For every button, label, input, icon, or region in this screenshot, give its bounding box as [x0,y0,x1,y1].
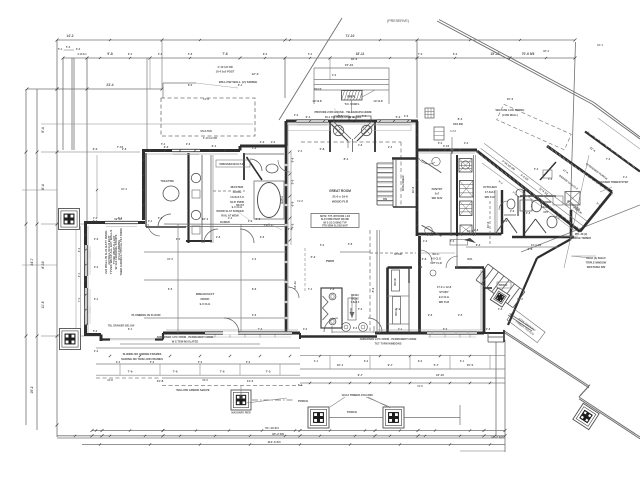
svg-text:7'-4: 7'-4 [308,287,313,291]
svg-text:5'-2: 5'-2 [311,255,316,259]
svg-text:3'-2: 3'-2 [76,47,81,51]
svg-text:3'-1: 3'-1 [460,360,465,363]
svg-text:3'-3: 3'-3 [468,265,473,269]
svg-text:10'-6: 10'-6 [411,186,415,193]
svg-text:(LOW WALL): (LOW WALL) [502,113,518,117]
svg-text:6'-0: 6'-0 [176,237,181,241]
svg-text:WD SHV: WD SHV [432,196,443,200]
svg-text:18'-6: 18'-6 [351,57,358,61]
svg-text:7'-2: 7'-2 [298,384,303,387]
svg-text:6'-1: 6'-1 [238,83,243,87]
svg-text:7'-6: 7'-6 [222,52,228,56]
svg-text:5x7: 5x7 [435,192,440,196]
svg-text:1/2 10-R: 1/2 10-R [373,100,382,103]
svg-text:14'-7 1/2: 14'-7 1/2 [491,435,503,439]
svg-text:12'-1: 12'-1 [597,43,603,47]
svg-text:7'-5: 7'-5 [266,370,271,374]
svg-text:10'-2: 10'-2 [507,97,514,101]
svg-text:W S.TEM INSULATED: W S.TEM INSULATED [172,340,199,344]
svg-text:5'-8: 5'-8 [320,147,325,151]
svg-text:6'-8: 6'-8 [288,227,293,231]
svg-text:3'-0: 3'-0 [503,219,508,223]
svg-text:8'-0: 8'-0 [371,287,375,292]
svg-text:94'-2 5/8: 94'-2 5/8 [272,432,284,436]
svg-text:3'-0: 3'-0 [303,327,308,331]
svg-text:4'-1: 4'-1 [398,327,403,331]
svg-text:4'-10 1/2 OD: 4'-10 1/2 OD [217,65,232,69]
svg-text:2'-8: 2'-8 [122,147,127,151]
svg-text:5'-2: 5'-2 [66,46,71,49]
svg-text:9-0 CLG: 9-0 CLG [200,302,211,306]
svg-text:114'-0 3/4: 114'-0 3/4 [267,440,281,444]
svg-text:ROD+SHELF: ROD+SHELF [401,175,405,191]
svg-text:3'-0: 3'-0 [93,147,98,151]
svg-text:51'-10 3/4: 51'-10 3/4 [265,426,279,430]
svg-text:6'-1: 6'-1 [306,115,311,119]
svg-text:5'-7: 5'-7 [434,363,439,367]
svg-text:SLD CORE PAINT GRADE: SLD CORE PAINT GRADE [321,218,350,221]
svg-text:2'-6: 2'-6 [458,313,463,317]
svg-text:RECESSED TIMBER STEP: RECESSED TIMBER STEP [596,180,629,184]
svg-text:5'-0: 5'-0 [358,307,363,311]
svg-text:BW41D: BW41D [499,284,508,287]
svg-text:10-4 5x5 POST: 10-4 5x5 POST [216,70,235,74]
svg-text:9'-4: 9'-4 [41,127,45,133]
svg-text:2x6 WALL W R-21 BATT INSUL: 2x6 WALL W R-21 BATT INSUL [104,230,108,274]
svg-text:BATH: BATH [280,196,284,203]
svg-text:6'-4: 6'-4 [77,272,81,277]
svg-text:DRESSER BUILT-IN: DRESSER BUILT-IN [220,162,245,166]
svg-text:6'-1: 6'-1 [212,144,217,148]
svg-text:WESTODIA SIM: WESTODIA SIM [587,266,605,269]
svg-text:3'-1: 3'-1 [148,219,153,223]
svg-text:8'-8: 8'-8 [252,287,257,291]
svg-text:6'-0: 6'-0 [450,239,455,243]
svg-text:17-6x13: 17-6x13 [485,190,496,194]
svg-text:2'-8: 2'-8 [474,228,479,232]
svg-text:DN: DN [350,308,353,312]
svg-text:3'-6: 3'-6 [252,313,257,317]
svg-text:11'-0: 11'-0 [417,385,423,388]
svg-text:11'-8: 11'-8 [467,229,474,233]
svg-text:3'-2: 3'-2 [116,361,121,364]
svg-text:5'-0: 5'-0 [256,217,261,221]
svg-text:19'-2: 19'-2 [30,386,34,393]
svg-text:10'-1: 10'-1 [337,363,344,367]
svg-text:8-0 CLG: 8-0 CLG [431,257,441,261]
svg-text:12'-8: 12'-8 [107,379,113,382]
svg-text:4'-2: 4'-2 [423,239,428,243]
svg-text:MTL.48 (2): MTL.48 (2) [575,233,588,236]
svg-text:FIREPL: FIREPL [347,96,356,99]
svg-text:WILLOW LOG SIDING: WILLOW LOG SIDING [496,108,525,112]
svg-text:9'-8: 9'-8 [107,52,113,56]
svg-text:5-0x7-6: 5-0x7-6 [264,224,273,227]
svg-text:8'-10: 8'-10 [41,261,45,268]
svg-text:2'-8: 2'-8 [486,327,491,331]
svg-text:PANTRY: PANTRY [432,187,443,191]
svg-text:9-0 CLG: 9-0 CLG [232,205,243,209]
svg-text:10'-6: 10'-6 [202,379,208,382]
svg-text:6'-4: 6'-4 [94,297,99,301]
svg-text:2'-2: 2'-2 [271,140,276,144]
svg-text:2'-8: 2'-8 [526,211,531,215]
svg-text:8'-4: 8'-4 [41,184,45,190]
svg-text:8'-1: 8'-1 [344,157,349,161]
svg-text:NOOK: NOOK [201,297,211,301]
svg-text:3'-2: 3'-2 [464,141,469,145]
svg-text:2'-6: 2'-6 [94,237,99,241]
svg-text:5-8x3-0: 5-8x3-0 [351,301,360,304]
svg-text:5'-2: 5'-2 [93,329,98,333]
svg-text:9'-7: 9'-7 [358,373,363,377]
svg-text:ANDERSEN 2-PC FRDM - PERMANENT: ANDERSEN 2-PC FRDM - PERMANENT HOME [360,337,417,341]
svg-text:18'-11: 18'-11 [356,52,365,56]
svg-text:9'-6: 9'-6 [528,247,533,251]
svg-text:7'-6: 7'-6 [173,370,178,374]
svg-text:T.O. SUBFL: T.O. SUBFL [344,102,360,106]
svg-text:GREAT ROOM: GREAT ROOM [329,189,351,193]
svg-text:7'-2: 7'-2 [338,114,343,118]
svg-text:WD FLR: WD FLR [439,300,450,304]
svg-text:2'-6: 2'-6 [186,142,191,146]
svg-text:18'-4: 18'-4 [543,49,549,53]
svg-text:71'-10: 71'-10 [346,34,355,38]
svg-text:BRA 888: BRA 888 [453,123,463,126]
svg-text:2'-8: 2'-8 [216,235,221,239]
svg-text:4'-10 1/2 OD: 4'-10 1/2 OD [203,137,217,140]
svg-text:TYVEK WRAP ALL EXT WALLS: TYVEK WRAP ALL EXT WALLS [109,230,113,274]
svg-text:4'-6: 4'-6 [422,257,427,261]
svg-text:14'-2: 14'-2 [247,379,254,383]
svg-text:6'-2: 6'-2 [453,52,458,56]
svg-text:3'-8: 3'-8 [252,146,257,150]
svg-text:8'-4: 8'-4 [458,117,463,121]
svg-text:PLUMBING IN FLOOR: PLUMBING IN FLOOR [131,313,160,317]
svg-text:11'-2: 11'-2 [517,297,523,301]
svg-text:WD FLR: WD FLR [485,195,496,199]
svg-text:7'-0: 7'-0 [77,297,81,302]
svg-text:6'-1: 6'-1 [128,327,133,331]
svg-text:5'-4: 5'-4 [308,52,313,56]
svg-text:6'-6: 6'-6 [168,287,173,291]
svg-text:5'-2: 5'-2 [534,167,539,171]
svg-text:14'-11: 14'-11 [293,281,297,289]
svg-text:4'-4: 4'-4 [228,216,233,220]
svg-text:TILT TURN WINDOWS: TILT TURN WINDOWS [374,342,401,346]
svg-text:5'-9: 5'-9 [418,265,423,269]
svg-text:14'-2: 14'-2 [66,34,73,38]
svg-text:2'-8: 2'-8 [510,209,515,213]
svg-text:23'-4: 23'-4 [106,83,113,87]
svg-text:BLT-IN: BLT-IN [395,278,397,286]
svg-text:CPT: CPT [543,210,549,214]
svg-text:TRIPLE WINDOW: TRIPLE WINDOW [586,262,607,265]
svg-text:8'-0: 8'-0 [418,360,423,363]
svg-text:4'-2: 4'-2 [252,257,257,261]
svg-text:12'-2: 12'-2 [167,257,173,261]
svg-text:6'-0: 6'-0 [438,141,443,145]
svg-text:BRIDGE TIMBER: BRIDGE TIMBER [571,237,591,240]
svg-text:4'-8: 4'-8 [358,143,363,147]
svg-text:7'-0: 7'-0 [418,52,423,56]
svg-text:15'-0: 15'-0 [467,363,474,367]
svg-text:2'-4: 2'-4 [298,149,303,153]
svg-text:6'-8: 6'-8 [260,235,265,239]
svg-text:16'-4: 16'-4 [202,217,209,221]
svg-text:WOOD FLR: WOOD FLR [332,200,349,204]
svg-text:2'-10: 2'-10 [427,233,433,237]
svg-text:DECK: DECK [314,87,321,91]
svg-text:5'-0: 5'-0 [246,361,251,364]
svg-text:W/ 3-1/2 CASING TYP: W/ 3-1/2 CASING TYP [323,221,347,224]
svg-text:8'-2: 8'-2 [118,216,123,220]
svg-text:12'-0: 12'-0 [252,72,259,76]
svg-text:16-1 7x4 INSULATED GLASS: 16-1 7x4 INSULATED GLASS [325,115,362,119]
svg-text:6'-5: 6'-5 [443,327,448,331]
svg-text:W 1x4 FURRING STRIPS: W 1x4 FURRING STRIPS [114,235,118,270]
svg-text:5'-0: 5'-0 [150,361,155,364]
svg-text:STUDY: STUDY [439,290,449,294]
svg-text:6'-2: 6'-2 [353,326,358,330]
svg-text:1/2 10-B: 1/2 10-B [312,100,321,103]
svg-text:17-0 x 12-8: 17-0 x 12-8 [437,285,452,289]
svg-text:NOTE: TYP. INT DORS 1-3/4: NOTE: TYP. INT DORS 1-3/4 [320,215,351,218]
svg-text:4'-1: 4'-1 [314,360,319,363]
svg-text:7'-0: 7'-0 [606,157,611,161]
svg-text:(PRESERVE): (PRESERVE) [387,19,409,23]
svg-text:3-10 8-1: 3-10 8-1 [77,53,87,56]
svg-text:5'-2: 5'-2 [396,115,401,119]
svg-text:4'-10: 4'-10 [443,144,450,148]
svg-text:BREAKFAST: BREAKFAST [196,292,215,296]
svg-text:9'-8: 9'-8 [428,313,433,317]
svg-text:PROVIDE 2 RD HOUSE - TELEGRAPH: PROVIDE 2 RD HOUSE - TELEGRAPH HOME [314,110,371,114]
svg-text:HOLD (2) SHELF: HOLD (2) SHELF [586,257,606,260]
svg-text:2'-0: 2'-0 [294,113,299,117]
svg-text:12x12 TIMBER COLUMN: 12x12 TIMBER COLUMN [341,393,372,397]
svg-text:14'-1 1/2: 14'-1 1/2 [531,243,542,247]
svg-text:W.D.: W.D. [467,257,473,261]
svg-text:24'-7: 24'-7 [30,258,34,265]
svg-text:PORCH: PORCH [347,410,357,414]
svg-text:8'-2: 8'-2 [77,247,81,252]
svg-text:TOILETRM: TOILETRM [160,179,173,183]
svg-text:SLIDING NO HIDDEN FRAMES: SLIDING NO HIDDEN FRAMES [123,352,162,356]
svg-text:ANDERSEN 4-PC FRDM - PERMANENT: ANDERSEN 4-PC FRDM - PERMANENT HOME [157,335,214,339]
svg-text:3'-4: 3'-4 [623,175,628,179]
svg-text:RAISED: RAISED [220,220,230,224]
svg-text:4'-2: 4'-2 [332,73,337,77]
svg-text:5'-1: 5'-1 [58,47,63,51]
svg-text:7'-6: 7'-6 [220,370,225,374]
svg-text:7'-6: 7'-6 [128,370,133,374]
svg-text:4'-0: 4'-0 [458,233,463,237]
svg-text:SLIDING NO THIN LOW FRAMES: SLIDING NO THIN LOW FRAMES [121,357,163,361]
svg-text:8'-2: 8'-2 [263,52,268,56]
svg-text:SUITE: SUITE [233,190,242,194]
svg-text:PORCH: PORCH [298,399,308,403]
svg-text:WOOD SLAT SCREEN: WOOD SLAT SCREEN [216,209,243,213]
svg-text:WILLOW ARBOR ABOVE: WILLOW ARBOR ABOVE [176,388,209,392]
svg-text:15'-10: 15'-10 [345,63,354,67]
svg-text:8'-0: 8'-0 [188,83,193,87]
svg-text:7'-3: 7'-3 [258,327,263,331]
svg-text:3'-6: 3'-6 [404,114,409,118]
svg-text:2'-0: 2'-0 [94,350,99,353]
svg-text:14'-8: 14'-8 [203,97,209,101]
svg-text:2'-2: 2'-2 [388,145,393,149]
svg-text:PWDR: PWDR [326,259,335,263]
svg-text:31'-8: 31'-8 [157,379,164,383]
svg-text:6'-2: 6'-2 [476,243,481,247]
svg-text:5'-0: 5'-0 [198,361,203,364]
svg-text:4'-0: 4'-0 [158,52,163,56]
svg-text:9'-0: 9'-0 [94,265,99,269]
svg-text:4'-8: 4'-8 [498,307,503,311]
svg-text:PTD SEMI-GLOSS WHT: PTD SEMI-GLOSS WHT [322,226,348,228]
svg-text:W.I.C.: W.I.C. [432,252,440,256]
svg-text:VAULTED: VAULTED [200,129,212,133]
svg-text:9-0 CLG: 9-0 CLG [439,295,449,299]
svg-text:13'-10: 13'-10 [436,373,444,377]
svg-text:9'-7: 9'-7 [388,363,393,367]
svg-text:STOR: STOR [394,252,402,256]
svg-text:6'-4: 6'-4 [128,52,133,56]
svg-text:7'-2: 7'-2 [362,114,367,118]
svg-text:5'-8: 5'-8 [348,242,353,246]
svg-text:5'-4: 5'-4 [161,142,166,146]
svg-text:10'-6: 10'-6 [486,221,490,228]
svg-text:21-0 x 19-6: 21-0 x 19-6 [332,195,348,199]
svg-text:KITCHEN: KITCHEN [483,185,496,189]
svg-text:4'-2: 4'-2 [260,140,265,144]
svg-text:DN: DN [383,197,387,201]
svg-text:5'-6: 5'-6 [158,216,163,220]
svg-text:THEM JAPANICA TYPICAL TILT FRD: THEM JAPANICA TYPICAL TILT FRDM [119,228,123,275]
svg-text:3'-9: 3'-9 [396,307,401,311]
svg-text:6'-2: 6'-2 [364,360,369,363]
svg-text:10'-4: 10'-4 [121,187,127,191]
svg-text:1-7-2: 1-7-2 [450,130,456,133]
svg-text:5'-8: 5'-8 [188,52,193,56]
svg-text:5'-2: 5'-2 [320,243,325,247]
svg-text:13-6x17-0: 13-6x17-0 [230,195,244,199]
svg-text:70'-6 5/8: 70'-6 5/8 [522,52,535,56]
svg-text:MASTER: MASTER [231,185,245,189]
svg-text:11'-2: 11'-2 [297,199,303,203]
svg-text:MASONRY PIER: MASONRY PIER [231,412,250,415]
svg-text:11'-6: 11'-6 [41,301,45,308]
